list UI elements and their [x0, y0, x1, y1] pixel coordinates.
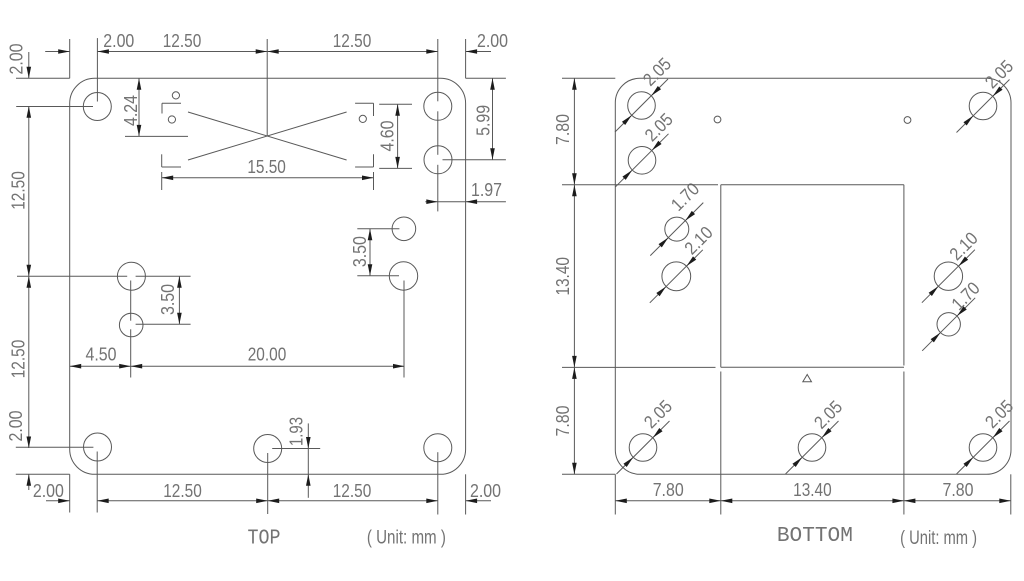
- svg-text:12.50: 12.50: [163, 481, 202, 501]
- svg-text:1.93: 1.93: [287, 417, 307, 446]
- X cross lines: [188, 112, 347, 160]
- courtyard corner brackets: [162, 102, 181, 104]
- svg-text:2.00: 2.00: [33, 481, 64, 501]
- dims 4.50 and 20.00: [130, 281, 132, 321]
- bottom dimension line BOTTOM view: [615, 500, 1011, 502]
- hole top-left (97,106): [83, 93, 111, 121]
- svg-text:4.24: 4.24: [121, 95, 141, 126]
- svg-text:12.50: 12.50: [333, 481, 372, 501]
- bottom chain extension lines TOP view: [69, 474, 71, 512]
- svg-text:7.80: 7.80: [653, 480, 684, 500]
- svg-text:13.40: 13.40: [553, 257, 573, 296]
- bottom dimension line y=500.8: [46, 500, 70, 502]
- bottom chain extension lines BOTTOM view: [614, 474, 616, 514]
- hole J dia 2.05: [969, 92, 997, 120]
- hole bottom-left (97,447): [84, 433, 112, 461]
- dim 4.24: [138, 78, 140, 136]
- svg-text:2.00: 2.00: [6, 411, 26, 442]
- hole mid-right upper (404,229): [392, 217, 416, 241]
- hole I dia 2.05: [969, 434, 997, 462]
- extension lines top chain: [69, 39, 71, 78]
- TOP view board outline: [70, 78, 466, 474]
- hole D dia 2.10: [662, 262, 691, 291]
- svg-text:3.50: 3.50: [158, 284, 178, 315]
- svg-text:7.80: 7.80: [943, 480, 974, 500]
- left chain extension lines BOTTOM view: [562, 77, 615, 79]
- left dimension line x=574.4: [573, 78, 575, 474]
- svg-text:( Unit: mm ): ( Unit: mm ): [900, 528, 977, 549]
- hole mid-left lower (131,325): [119, 313, 143, 337]
- svg-text:BOTTOM: BOTTOM: [777, 525, 853, 548]
- dim 15.50: [161, 172, 163, 190]
- svg-text:2.00: 2.00: [103, 31, 134, 51]
- hole mid-left upper (131,276): [117, 262, 145, 290]
- svg-text:15.50: 15.50: [247, 157, 286, 177]
- inner rectangle: [721, 184, 904, 186]
- svg-text:7.80: 7.80: [553, 406, 573, 437]
- dim 3.50 right: [357, 228, 399, 230]
- pin1 triangle marker: [803, 375, 812, 382]
- svg-text:2.00: 2.00: [470, 481, 501, 501]
- center extension line x=267: [266, 39, 268, 137]
- dim 3.50 left: [178, 276, 180, 324]
- svg-text:1.97: 1.97: [471, 180, 502, 200]
- small via holes BOTTOM: [714, 116, 721, 123]
- svg-text:4.50: 4.50: [86, 345, 117, 365]
- small via holes TOP: [172, 92, 179, 99]
- hole E dia 2.10: [934, 262, 962, 290]
- BOTTOM view board outline: [615, 78, 1011, 474]
- left dimension line x=28.8: [28, 52, 30, 78]
- hole right upper (438,160): [424, 146, 452, 174]
- svg-text:( Unit: mm ): ( Unit: mm ): [367, 528, 446, 549]
- left chain extension lines: [16, 77, 70, 79]
- hole mid-right lower (403,276): [389, 262, 417, 290]
- svg-text:13.40: 13.40: [793, 480, 832, 500]
- hole G dia 2.05: [629, 434, 657, 462]
- svg-text:12.50: 12.50: [9, 171, 29, 210]
- svg-text:20.00: 20.00: [248, 345, 287, 365]
- svg-text:12.50: 12.50: [9, 340, 29, 379]
- hole H dia 2.05: [798, 434, 826, 462]
- dim 4.60: [379, 103, 412, 105]
- svg-text:5.99: 5.99: [474, 105, 494, 136]
- hole F dia 1.70: [937, 313, 960, 336]
- dim 1.93: [272, 448, 320, 450]
- hole top-right (438,106): [424, 92, 452, 120]
- svg-text:TOP: TOP: [248, 528, 281, 551]
- hole B dia 2.05: [628, 147, 656, 175]
- dim 5.99: [466, 77, 506, 79]
- svg-text:4.60: 4.60: [378, 121, 398, 152]
- svg-text:2.00: 2.00: [6, 44, 26, 75]
- hole C dia 1.70: [665, 217, 689, 241]
- dim 1.97: [425, 201, 506, 203]
- hole bottom-right (438,448): [424, 434, 452, 462]
- svg-text:12.50: 12.50: [163, 31, 202, 51]
- svg-text:7.80: 7.80: [553, 114, 573, 145]
- svg-text:2.00: 2.00: [477, 31, 508, 51]
- top dimension line y=51.5: [45, 51, 69, 53]
- svg-text:12.50: 12.50: [333, 31, 372, 51]
- hole A dia 2.05: [628, 92, 656, 120]
- svg-text:3.50: 3.50: [350, 236, 370, 267]
- hole bottom-middle (268,448): [254, 435, 282, 463]
